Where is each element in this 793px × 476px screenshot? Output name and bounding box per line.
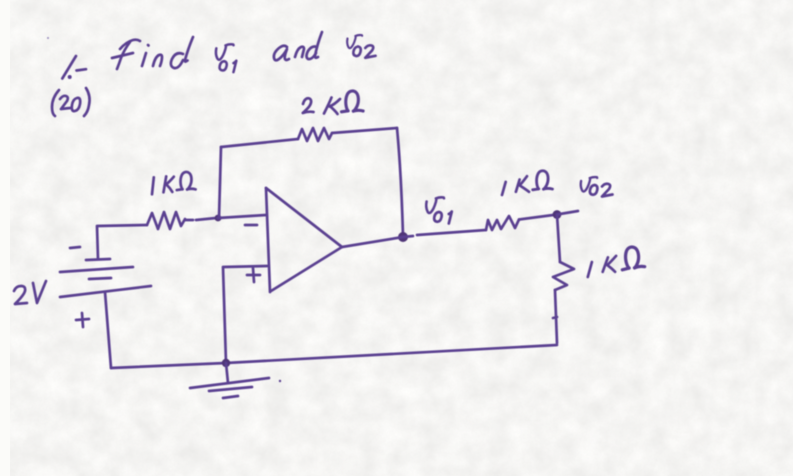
wire feedback top left segment bbox=[221, 139, 298, 147]
wire node A to op-amp inverting input bbox=[218, 215, 266, 218]
node ground junction dot bbox=[222, 359, 230, 367]
resistor R4 1K vertical bbox=[553, 262, 574, 290]
voltage source V1: battery plates bbox=[60, 259, 151, 297]
wire feedback right vertical bbox=[397, 128, 403, 236]
wire R3 to node v02 bbox=[519, 215, 557, 220]
label 2V bbox=[14, 281, 46, 304]
wire feedback left vertical bbox=[219, 147, 221, 218]
node v01: output junction dot bbox=[398, 232, 408, 242]
wire R4 to bottom rail bbox=[553, 290, 557, 343]
node v02 junction dot bbox=[553, 210, 562, 219]
label v02 bbox=[581, 177, 613, 196]
battery minus sign bbox=[70, 247, 80, 248]
stray ink speck top left bbox=[47, 37, 49, 39]
wire R1 to node A bbox=[185, 218, 216, 220]
resistor R3 1K bbox=[486, 216, 519, 230]
wire bottom rail bbox=[111, 345, 557, 368]
label v01 bbox=[426, 197, 452, 223]
wire stub right of node v02 bbox=[557, 211, 578, 215]
wire battery bottom down bbox=[105, 292, 111, 368]
resistor R2 2K bbox=[298, 128, 332, 141]
wire node v01 to R3 bbox=[403, 230, 486, 237]
op-amp minus sign bbox=[245, 224, 257, 227]
title text "and" bbox=[274, 32, 322, 60]
wire node v02 down to R4 bbox=[557, 215, 560, 263]
label 1K (R3) bbox=[502, 171, 552, 195]
op-amp U1 triangle bbox=[266, 188, 342, 292]
label 2K (R2) bbox=[303, 91, 363, 114]
title v01 bbox=[216, 44, 236, 72]
title text "1.-" bbox=[62, 56, 86, 79]
label 1K (R4) bbox=[588, 246, 645, 277]
battery plus sign bbox=[76, 313, 89, 327]
node A: inverting input junction dot bbox=[215, 215, 222, 222]
title text "Find" bbox=[112, 37, 193, 69]
wire op-amp output to node v01 bbox=[342, 237, 403, 247]
label (20) bbox=[52, 88, 90, 116]
label 1K (R1) bbox=[152, 172, 196, 194]
op-amp plus sign bbox=[247, 268, 260, 282]
title v02 bbox=[347, 35, 375, 58]
wire op-amp + input to ground junction bbox=[223, 266, 267, 363]
wire battery top to R1 bbox=[97, 225, 147, 259]
wire feedback top right segment bbox=[332, 128, 397, 133]
resistor R1 1K bbox=[147, 212, 185, 229]
ground symbol bbox=[190, 363, 281, 398]
